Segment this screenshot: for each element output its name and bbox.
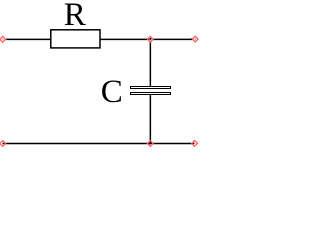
wire bottom rail bbox=[3, 142, 195, 144]
node A junction dot bbox=[150, 38, 152, 40]
wire input terminal to resistor bbox=[6, 38, 50, 40]
capacitor C top plate bbox=[131, 87, 171, 89]
wire capacitor down to node B bbox=[149, 95, 151, 143]
resistor R bbox=[51, 30, 100, 48]
wire node A down to capacitor bbox=[150, 41, 152, 86]
terminal bottom-left port bbox=[0, 141, 6, 147]
terminal top-right output port bbox=[192, 36, 198, 42]
terminal bottom-right port bbox=[192, 141, 198, 147]
node B junction dot bbox=[148, 143, 150, 145]
wire node A to output terminal bbox=[153, 38, 194, 40]
wire resistor to node A bbox=[101, 39, 150, 41]
node A marker (red diamond) bbox=[147, 36, 153, 42]
capacitor C bottom plate bbox=[131, 93, 171, 95]
svg-text:R: R bbox=[64, 0, 86, 33]
node B marker (red diamond) bbox=[147, 141, 153, 147]
terminal top-left input port bbox=[0, 36, 6, 42]
svg-text:C: C bbox=[101, 74, 123, 110]
